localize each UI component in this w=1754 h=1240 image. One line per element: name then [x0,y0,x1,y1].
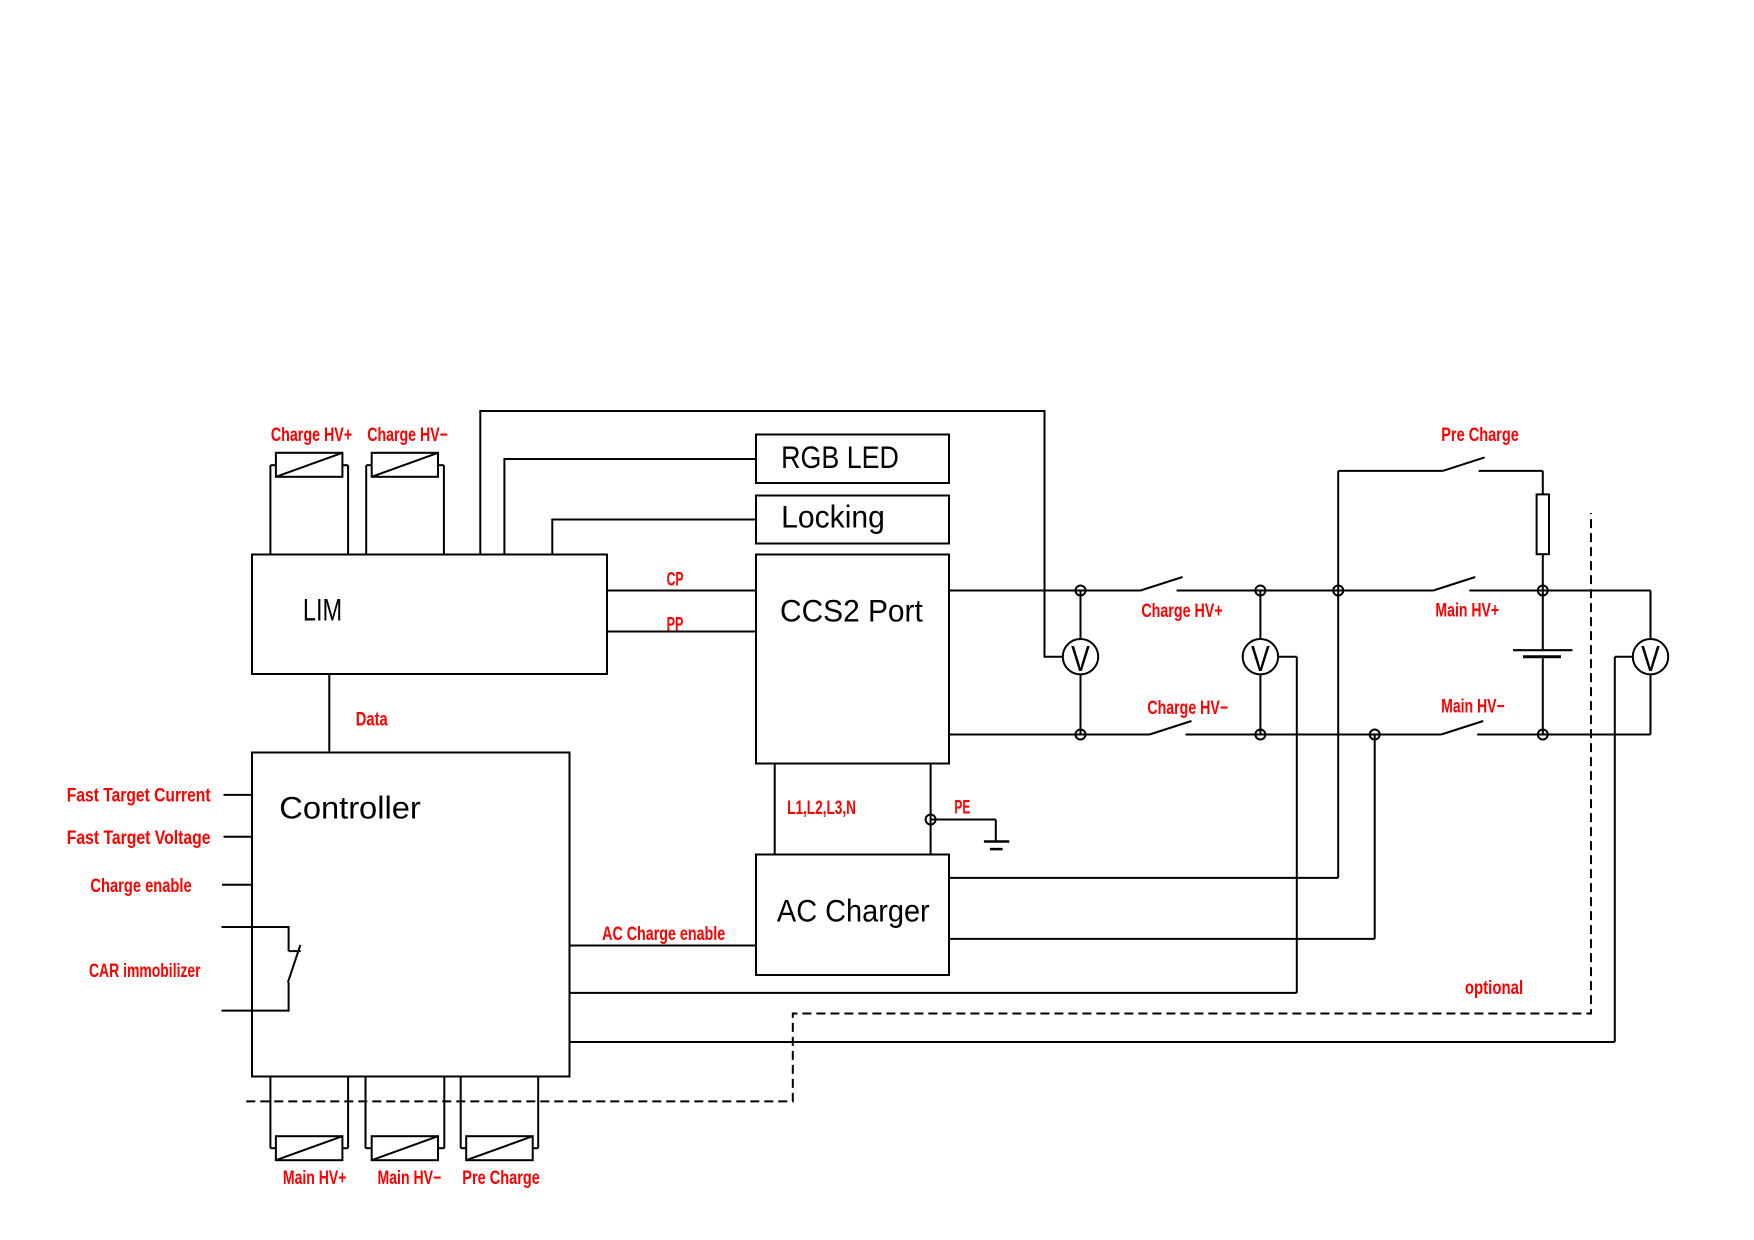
svg-text:Charge HV−: Charge HV− [367,424,448,446]
svg-text:PP: PP [667,614,684,635]
svg-text:L1,L2,L3,N: L1,L2,L3,N [787,797,856,819]
svg-text:Locking: Locking [781,499,885,535]
svg-text:CP: CP [667,570,684,590]
svg-text:RGB LED: RGB LED [781,441,899,475]
svg-text:CCS2 Port: CCS2 Port [780,594,923,629]
svg-text:optional: optional [1465,977,1523,998]
svg-text:Data: Data [356,709,388,730]
svg-text:Pre Charge: Pre Charge [462,1167,540,1188]
svg-text:V: V [1641,639,1660,679]
svg-text:AC Charge enable: AC Charge enable [602,923,725,944]
svg-text:LIM: LIM [303,592,342,627]
svg-text:Charge HV+: Charge HV+ [271,424,352,445]
svg-text:Fast Target Current: Fast Target Current [67,784,211,806]
svg-text:V: V [1251,639,1270,679]
svg-text:Fast Target Voltage: Fast Target Voltage [67,827,211,849]
svg-text:Charge HV+: Charge HV+ [1141,600,1222,621]
svg-text:Controller: Controller [279,790,421,825]
svg-text:Main HV−: Main HV− [1441,695,1505,717]
svg-text:Main HV−: Main HV− [378,1167,442,1189]
svg-text:AC Charger: AC Charger [777,894,930,928]
svg-text:PE: PE [954,798,970,818]
svg-text:Main HV+: Main HV+ [283,1167,347,1189]
svg-text:Charge enable: Charge enable [90,875,191,896]
svg-text:Main HV+: Main HV+ [1435,599,1499,621]
svg-text:CAR immobilizer: CAR immobilizer [89,960,201,982]
svg-text:V: V [1071,639,1090,679]
svg-text:Pre Charge: Pre Charge [1441,424,1519,445]
svg-text:Charge HV−: Charge HV− [1147,697,1228,719]
